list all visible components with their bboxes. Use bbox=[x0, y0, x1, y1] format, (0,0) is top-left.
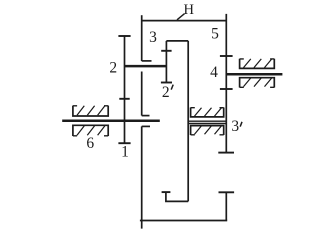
gear 3 shaft top bar bbox=[166, 40, 188, 42]
gear 2 top cap bbox=[118, 35, 130, 37]
fixed gear at 3', lower block bbox=[191, 126, 224, 135]
carrier left arm upper fork foot bbox=[142, 60, 152, 62]
carrier H top bar bbox=[142, 20, 227, 22]
label 6 bbox=[86, 135, 94, 152]
planet shaft 2-2' bbox=[125, 65, 167, 68]
cap at bottom of right arm bbox=[218, 152, 234, 154]
svg-text:2: 2 bbox=[162, 84, 170, 101]
label 4 bbox=[210, 64, 218, 81]
svg-text:5: 5 bbox=[211, 26, 219, 43]
leader line to H label bbox=[177, 14, 185, 20]
label H bbox=[184, 2, 195, 18]
gear 2 and gear 1 radial line bbox=[124, 36, 126, 143]
bearing on shaft 4, upper block bbox=[240, 59, 275, 69]
output coupling right cap bbox=[219, 191, 235, 193]
carrier left arm lower segment bbox=[141, 126, 143, 228]
label 2' bbox=[162, 84, 173, 101]
label 2 bbox=[109, 60, 117, 77]
gear 5 / gear 4 mesh tick bbox=[220, 55, 233, 57]
input shaft 1 bbox=[62, 120, 160, 123]
label 1 bbox=[121, 143, 129, 160]
output coupling bottom bar bbox=[140, 220, 227, 222]
svg-text:1: 1 bbox=[121, 143, 129, 160]
gear 4 bottom cap tick bbox=[220, 88, 233, 90]
gear 2' bottom cap bbox=[161, 82, 172, 84]
central shaft 3-3' vertical bbox=[187, 41, 189, 202]
gear 2' radial line bbox=[165, 41, 167, 83]
gear 1 bottom cap bbox=[118, 142, 130, 144]
carrier left arm fork foot below shaft 1 bbox=[142, 125, 150, 127]
output coupling right riser bbox=[225, 193, 227, 221]
carrier H right arm vertical bbox=[225, 14, 227, 153]
central shaft bottom hook bbox=[166, 193, 188, 202]
label 5 bbox=[211, 26, 219, 43]
svg-text:4: 4 bbox=[210, 64, 218, 81]
svg-text:2: 2 bbox=[109, 60, 117, 77]
carrier H left arm upper segment bbox=[141, 15, 143, 61]
fixed gear at 3', upper block bbox=[191, 108, 224, 117]
svg-text:6: 6 bbox=[86, 135, 94, 152]
gear 1 / gear 2 mesh tick bbox=[119, 98, 129, 100]
carrier left arm middle segment bbox=[141, 72, 143, 116]
gear 3' mesh rim lines bbox=[188, 121, 226, 123]
bearing on shaft 4, lower block bbox=[240, 78, 275, 88]
label 3' bbox=[231, 118, 242, 135]
bearing 6 upper block bbox=[73, 106, 108, 116]
gear 2' / gear 3 mesh tick bbox=[161, 50, 171, 52]
label 3 bbox=[149, 29, 157, 46]
gear 4 output shaft bbox=[226, 73, 282, 76]
svg-text:3: 3 bbox=[149, 29, 157, 46]
carrier left arm fork foot above shaft 1 bbox=[142, 115, 150, 117]
svg-text:H: H bbox=[184, 2, 195, 18]
bearing 6 lower block bbox=[73, 125, 108, 136]
svg-text:3: 3 bbox=[231, 118, 239, 135]
hook end cap bbox=[162, 191, 171, 193]
